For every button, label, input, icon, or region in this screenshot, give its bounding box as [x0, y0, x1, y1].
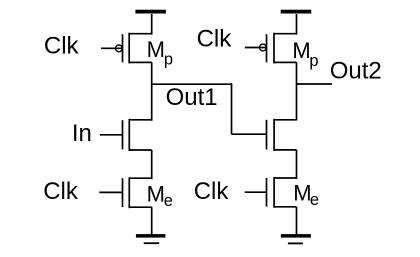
wire Out1 vertical drop [231, 83, 233, 134]
svg-text:Clk: Clk [43, 178, 79, 205]
wire Mp1 drain to N1 drain (Out1 node) [151, 62, 153, 120]
transistor Me1 (clocked NMOS, stage 1) [123, 177, 152, 208]
wire Out1 to N2 gate [232, 133, 267, 135]
wire Clk to Mp2 gate [245, 47, 267, 49]
wire Mp2 drain to N2 drain (Out2 node) [296, 62, 298, 120]
power VDD symbol stage 1 [135, 10, 166, 14]
wire VDD1 to Mp1 source [151, 14, 153, 35]
transistor N1 (input NMOS, stage 1) [123, 119, 152, 151]
svg-text:Mp: Mp [147, 37, 174, 68]
svg-text:Clk: Clk [194, 178, 230, 205]
svg-text:Me: Me [293, 180, 319, 209]
svg-text:Out2: Out2 [330, 57, 382, 84]
transistor Me2 (clocked NMOS, stage 2) [267, 177, 297, 208]
svg-text:Clk: Clk [44, 33, 80, 60]
wire Me2 source to ground [296, 207, 298, 235]
svg-text:Me: Me [147, 182, 173, 211]
wire VDD2 to Mp2 source [296, 14, 298, 35]
svg-text:In: In [72, 120, 92, 147]
transistor Mp2 (clocked PMOS, stage 2) [260, 33, 297, 64]
wire Me1 source to ground [151, 207, 153, 235]
wire Out2 stub [297, 83, 332, 85]
wire N2 source to Me2 drain [296, 150, 298, 179]
wire Clk to Mp1 gate [101, 47, 123, 49]
power VDD symbol stage 2 [281, 10, 312, 14]
wire Clk to Me1 gate [99, 191, 122, 193]
svg-text:Clk: Clk [197, 26, 233, 53]
ground symbol stage 2 [281, 234, 311, 243]
transistor N2 (input NMOS, stage 2) [267, 119, 297, 151]
wire N1 source to Me1 drain [151, 150, 153, 179]
ground symbol stage 1 [136, 234, 166, 243]
wire Out1 horizontal [152, 83, 232, 85]
wire Clk to Me2 gate [245, 191, 267, 193]
wire In to N1 gate [100, 134, 123, 136]
transistor Mp1 (clocked PMOS, stage 1) [116, 33, 152, 64]
svg-text:Out1: Out1 [166, 84, 218, 111]
